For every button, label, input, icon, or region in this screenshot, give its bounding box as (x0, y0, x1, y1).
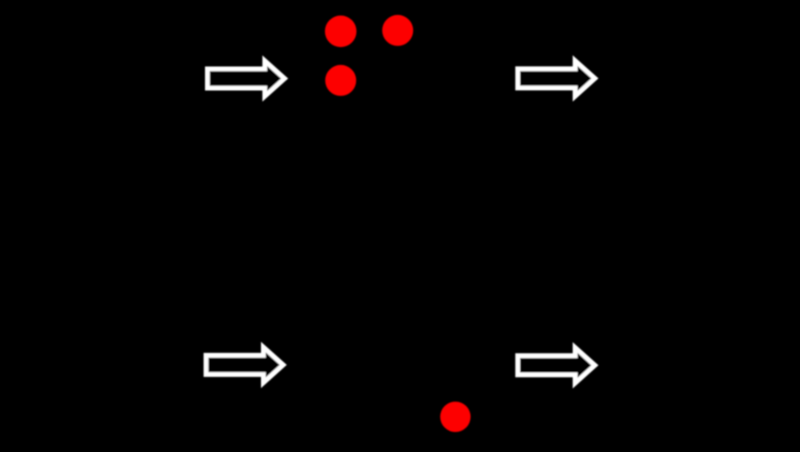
red particle top group dot 3 (325, 65, 356, 96)
arrow bottom-right (518, 348, 595, 384)
arrow bottom-left (206, 347, 283, 383)
red particle top group dot 2 (382, 15, 413, 46)
red particle top group dot 1 (325, 15, 357, 47)
red particle bottom dot (440, 402, 470, 432)
arrow top-left (207, 61, 284, 97)
arrow top-right (518, 61, 595, 97)
